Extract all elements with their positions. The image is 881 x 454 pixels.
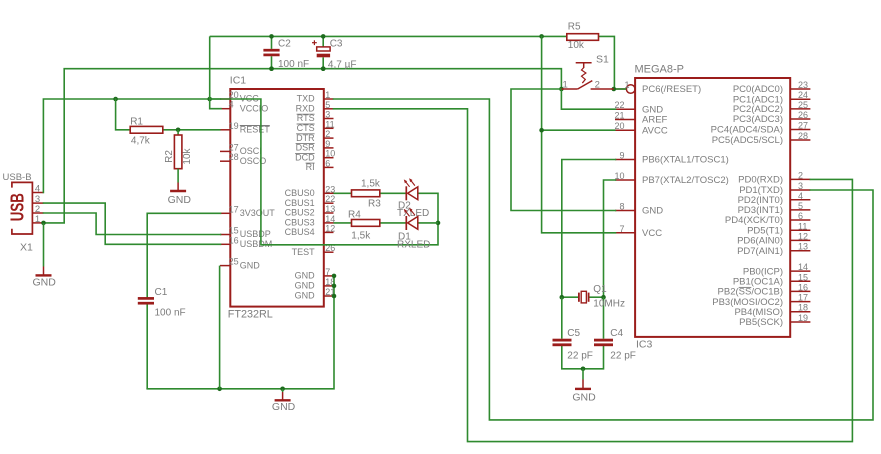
X1 pin 2 bbox=[32, 204, 43, 215]
svg-text:PB5(SCK): PB5(SCK) bbox=[739, 317, 783, 328]
svg-text:22 pF: 22 pF bbox=[567, 351, 593, 362]
IC3 pin 23 PC0(ADC0) (right) bbox=[733, 80, 811, 95]
IC1 pin 2 DTR (right) bbox=[296, 129, 333, 143]
IC3 pin 26 PC3(ADC3) (right) bbox=[733, 110, 811, 125]
svg-text:1: 1 bbox=[563, 79, 568, 90]
wire PB7/XTAL2 to crystal bbox=[604, 180, 616, 297]
svg-text:17: 17 bbox=[798, 293, 808, 303]
IC3 pin 16 PB2(SS/OC1B) (right) bbox=[718, 282, 811, 297]
junction on VCC at R1 branch bbox=[113, 97, 118, 102]
svg-text:20: 20 bbox=[614, 121, 624, 131]
IC1 pin 18 GND (right) bbox=[295, 277, 336, 291]
junction S1 pin 1 node bbox=[559, 87, 564, 92]
IC1 pin 4 VCCIO (left) bbox=[220, 100, 268, 114]
svg-text:22: 22 bbox=[325, 194, 335, 204]
wire D2 anode to LED node bbox=[418, 192, 438, 194]
svg-text:RI: RI bbox=[306, 162, 315, 172]
svg-text:5: 5 bbox=[798, 201, 803, 211]
wire GND net from USB pin1 across top to S1 bbox=[44, 69, 562, 223]
wire RESET net: R1 to IC1 pin 19 bbox=[116, 99, 221, 130]
wire R2 top lead bbox=[177, 130, 179, 135]
junction crystal GND bbox=[581, 367, 586, 372]
wire crystal right lead bbox=[589, 296, 604, 298]
IC3 pin 13 PD7(AIN1) (right) bbox=[737, 242, 810, 257]
IC3 pin 10 PB7(XTAL2/TOSC2) (left) bbox=[614, 171, 728, 186]
svg-text:13: 13 bbox=[325, 204, 335, 214]
IC1 pin 27 OSCI (left) bbox=[220, 142, 262, 156]
svg-text:28: 28 bbox=[229, 152, 239, 162]
svg-text:AVCC: AVCC bbox=[642, 125, 668, 136]
svg-text:12: 12 bbox=[325, 223, 335, 233]
svg-text:X1: X1 bbox=[20, 242, 33, 254]
svg-text:R5: R5 bbox=[568, 22, 581, 33]
svg-text:IC3: IC3 bbox=[636, 339, 653, 351]
label USB-B bbox=[3, 172, 32, 183]
svg-text:GND: GND bbox=[295, 271, 316, 281]
IC3 pin 22 GND (left) bbox=[614, 100, 663, 115]
wire C1 bottom to GND bus bbox=[146, 305, 148, 389]
svg-text:PC3(ADC3): PC3(ADC3) bbox=[733, 114, 783, 125]
svg-text:GND: GND bbox=[295, 281, 316, 291]
IC1 pin 26 TEST (right) bbox=[292, 243, 336, 257]
svg-text:RXLED: RXLED bbox=[397, 240, 430, 251]
svg-text:CTS: CTS bbox=[297, 123, 315, 133]
svg-text:VCC: VCC bbox=[642, 228, 662, 239]
X1 USB rotated label bbox=[7, 193, 28, 221]
svg-text:12: 12 bbox=[798, 231, 808, 241]
svg-text:USB: USB bbox=[7, 193, 28, 221]
wire VCC net: USB pin4 up and across to IC1 VCC pin 20 bbox=[43, 99, 220, 193]
svg-text:7: 7 bbox=[619, 224, 624, 234]
svg-text:TEST: TEST bbox=[292, 247, 316, 257]
switch S1 (reset pushbutton) bbox=[561, 54, 613, 91]
svg-text:DSR: DSR bbox=[296, 143, 316, 153]
IC IC1 FT232RL box bbox=[230, 89, 323, 307]
wire top VCC rail to R5 bbox=[210, 35, 567, 37]
wire R4 to D1 bbox=[380, 222, 407, 224]
svg-text:PC4(ADC4/SDA): PC4(ADC4/SDA) bbox=[711, 125, 783, 136]
svg-text:TXD: TXD bbox=[297, 94, 316, 104]
IC3 pin 8 GND (left) bbox=[615, 202, 663, 217]
wire crystal left lead bbox=[562, 296, 579, 298]
svg-text:VCCIO: VCCIO bbox=[240, 103, 269, 113]
svg-text:24: 24 bbox=[798, 90, 808, 100]
label X1 bbox=[20, 242, 33, 254]
capacitor C3 (polarized) bbox=[312, 34, 356, 71]
svg-text:16: 16 bbox=[229, 235, 239, 245]
ground symbol at bottom GND bus bbox=[272, 389, 296, 413]
svg-text:13: 13 bbox=[798, 242, 808, 252]
junction GND bus at IC1 pin 25 drop bbox=[217, 387, 222, 392]
svg-text:100 nF: 100 nF bbox=[278, 59, 309, 70]
svg-text:6: 6 bbox=[798, 211, 803, 221]
svg-text:CBUS0: CBUS0 bbox=[285, 188, 315, 198]
svg-text:23: 23 bbox=[798, 80, 808, 90]
svg-text:3: 3 bbox=[798, 181, 803, 191]
svg-text:27: 27 bbox=[798, 121, 808, 131]
svg-text:Q1: Q1 bbox=[593, 284, 607, 295]
wire VCC rising to top rail bbox=[209, 36, 211, 99]
IC3 pin 4 PD2(INT0) (right) bbox=[738, 191, 811, 206]
svg-text:PC5(ADC5/SCL): PC5(ADC5/SCL) bbox=[712, 135, 783, 146]
svg-text:6: 6 bbox=[325, 158, 330, 168]
R2 ground symbol bbox=[168, 169, 192, 206]
IC1 pin 11 CTS (right) bbox=[297, 119, 335, 133]
wire 3V3OUT to C1 bbox=[147, 213, 220, 297]
IC3 pin 15 PB1(OC1A) (right) bbox=[733, 272, 811, 287]
wire IC1 pin 25 GND drop bbox=[219, 266, 221, 389]
svg-text:C2: C2 bbox=[278, 38, 291, 49]
wire R5 right to switch node bbox=[599, 36, 615, 89]
svg-text:CBUS2: CBUS2 bbox=[285, 208, 315, 218]
junction LED anode node bbox=[436, 221, 441, 226]
IC1 pin 9 DSR (right) bbox=[296, 139, 334, 153]
junction AVCC bbox=[539, 128, 544, 133]
resistor R3 bbox=[352, 178, 382, 209]
svg-text:GND: GND bbox=[295, 291, 316, 301]
svg-text:OSCO: OSCO bbox=[240, 156, 267, 166]
junction XTAL2 / C4 bbox=[601, 295, 606, 300]
svg-text:100 nF: 100 nF bbox=[155, 308, 186, 319]
label IC1 bbox=[230, 74, 247, 86]
resistor R5 bbox=[567, 22, 599, 52]
wire GND bus along bottom to IC1 GND pins bbox=[147, 276, 334, 389]
wire D1 anode to LED node bbox=[418, 222, 438, 224]
value label FT232RL bbox=[228, 309, 273, 321]
svg-text:8: 8 bbox=[619, 202, 624, 212]
wire AVCC branch down to pin 20 AVCC and pin 7 VCC bbox=[542, 36, 616, 232]
svg-text:19: 19 bbox=[229, 121, 239, 131]
capacitor C5 bbox=[553, 328, 593, 362]
IC3 pin 11 PD5(T1) (right) bbox=[747, 221, 810, 236]
IC1 pin 7 GND (right) bbox=[295, 267, 334, 281]
label IC3 bbox=[636, 339, 653, 351]
IC3 pin 28 PC5(ADC5/SCL) (right) bbox=[712, 131, 811, 146]
svg-text:GND: GND bbox=[33, 276, 57, 288]
label MEGA8-P bbox=[635, 63, 685, 75]
svg-text:PB6(XTAL1/TOSC1): PB6(XTAL1/TOSC1) bbox=[642, 155, 729, 166]
capacitor C4 bbox=[594, 328, 636, 362]
IC3 pin 25 PC2(ADC2) (right) bbox=[733, 100, 811, 115]
IC1 pin 5 RXD (right) bbox=[296, 100, 334, 114]
svg-text:11: 11 bbox=[325, 119, 334, 129]
wire VCC to VCCIO pin 4 bbox=[210, 99, 221, 109]
svg-text:10MHz: 10MHz bbox=[593, 298, 625, 309]
IC3 pin 20 AVCC (left) bbox=[614, 121, 667, 136]
IC1 pin 12 CBUS4 (right) bbox=[285, 223, 336, 237]
IC1 pin 14 CBUS3 (right) bbox=[285, 214, 336, 228]
IC1 pin 19 RESET (left) bbox=[220, 121, 270, 135]
IC1 pin 17 3V3OUT (left) bbox=[220, 204, 275, 218]
IC3 pin 3 PD1(TXD) (right) bbox=[739, 181, 810, 196]
wire CBUS3 to R4 bbox=[334, 222, 352, 224]
IC3 pin 5 PD3(INT1) (right) bbox=[738, 201, 811, 216]
junction S1 pin 2 node bbox=[612, 87, 617, 92]
wire PB6/XTAL1 to crystal bbox=[562, 160, 616, 298]
IC1 pin 6 RI (right) bbox=[306, 158, 334, 172]
svg-text:PD7(AIN1): PD7(AIN1) bbox=[737, 246, 783, 257]
svg-text:USBDP: USBDP bbox=[240, 229, 271, 239]
svg-text:DTR: DTR bbox=[296, 133, 315, 143]
IC1 pin 13 CBUS2 (right) bbox=[285, 204, 336, 218]
junction top rail at AVCC branch bbox=[539, 34, 544, 39]
svg-text:27: 27 bbox=[229, 142, 239, 152]
svg-text:CBUS4: CBUS4 bbox=[285, 227, 315, 237]
svg-text:26: 26 bbox=[798, 110, 808, 120]
svg-text:22 pF: 22 pF bbox=[610, 351, 636, 362]
IC3 pin 27 PC4(ADC4/SDA) (right) bbox=[711, 121, 811, 136]
crystal Q1 10MHz bbox=[579, 284, 625, 309]
svg-text:MEGA8-P: MEGA8-P bbox=[635, 63, 685, 75]
IC3 pin 19 PB5(SCK) (right) bbox=[739, 313, 810, 328]
svg-text:10k: 10k bbox=[182, 147, 193, 164]
resistor R1 bbox=[130, 116, 163, 146]
svg-text:4: 4 bbox=[229, 100, 234, 110]
wire GND branch to IC3 pin 22 bbox=[561, 89, 615, 109]
resistor R2 (vertical) with 10k value bbox=[164, 135, 193, 169]
junction XTAL1 / C5 bbox=[560, 295, 565, 300]
svg-text:RTS: RTS bbox=[297, 113, 315, 123]
svg-text:10: 10 bbox=[325, 149, 335, 159]
wire USB pin3 to USBDM pin 16 bbox=[44, 203, 221, 244]
svg-text:5: 5 bbox=[325, 100, 330, 110]
wire R3 to D2 bbox=[380, 192, 407, 194]
svg-text:4: 4 bbox=[35, 184, 40, 195]
IC1 pin 20 VCC (left) bbox=[220, 90, 259, 104]
junction GND rail at C2 bbox=[269, 66, 274, 71]
X1 pin 3 bbox=[32, 194, 43, 205]
junction USB pin1 bbox=[41, 221, 46, 226]
svg-text:9: 9 bbox=[325, 139, 330, 149]
IC3 pin 7 VCC (left) bbox=[615, 224, 662, 239]
svg-text:14: 14 bbox=[798, 262, 808, 272]
wire VCC routed over IC1 to LED anodes bbox=[210, 99, 438, 245]
X1 pin 1 bbox=[32, 214, 43, 225]
svg-text:16: 16 bbox=[798, 282, 808, 292]
svg-text:1: 1 bbox=[35, 214, 40, 225]
svg-text:10k: 10k bbox=[568, 40, 585, 51]
IC3 pin 12 PD6(AIN0) (right) bbox=[737, 231, 810, 246]
IC1 pin 22 CBUS1 (right) bbox=[285, 194, 336, 208]
junction RESET at R2 bbox=[176, 128, 181, 133]
svg-text:DCD: DCD bbox=[295, 152, 315, 162]
LED D2 TXLED bbox=[397, 178, 429, 219]
svg-text:3: 3 bbox=[325, 110, 330, 120]
X1 pin 4 bbox=[32, 184, 43, 195]
svg-text:OSCI: OSCI bbox=[240, 146, 262, 156]
svg-text:CBUS1: CBUS1 bbox=[285, 198, 315, 208]
svg-text:USB-B: USB-B bbox=[3, 172, 32, 183]
IC3 pin 18 PB4(MISO) (right) bbox=[734, 303, 810, 318]
IC1 pin 21 GND (right) bbox=[295, 287, 336, 301]
IC3 pin 24 PC1(ADC1) (right) bbox=[733, 90, 811, 105]
svg-text:IC1: IC1 bbox=[230, 74, 247, 86]
junction GND bus at ground symbol bbox=[280, 387, 285, 392]
svg-text:GND: GND bbox=[572, 391, 596, 403]
IC1 pin 1 TXD (right) bbox=[297, 90, 334, 104]
IC3 pin 6 PD4(XCK/T0) (right) bbox=[725, 211, 810, 226]
wire CBUS0 to R3 bbox=[334, 192, 352, 194]
svg-text:19: 19 bbox=[798, 313, 808, 323]
svg-text:21: 21 bbox=[614, 111, 624, 121]
wire C5 bottom to crystal GND bbox=[562, 346, 604, 369]
ground symbol at crystal capacitors bbox=[572, 369, 596, 404]
connector X1 USB-B bbox=[12, 182, 33, 234]
svg-text:PD0(RXD): PD0(RXD) bbox=[738, 175, 783, 186]
wire GND branch to IC3 pin 8 bbox=[511, 89, 616, 211]
IC3 pin 17 PB3(MOSI/OC2) (right) bbox=[712, 293, 810, 308]
junction on VCC at IC1 bbox=[207, 97, 212, 102]
svg-text:4: 4 bbox=[798, 191, 803, 201]
svg-text:GND: GND bbox=[272, 401, 296, 413]
svg-text:PC6(/RESET): PC6(/RESET) bbox=[642, 84, 701, 95]
IC1 pin 23 CBUS0 (right) bbox=[285, 184, 336, 198]
IC1 pin 15 USBDP (left) bbox=[220, 226, 271, 240]
svg-text:RXD: RXD bbox=[296, 104, 316, 114]
svg-text:CBUS3: CBUS3 bbox=[285, 218, 315, 228]
IC1 pin 3 RTS (right) bbox=[297, 110, 334, 124]
svg-text:R2: R2 bbox=[164, 150, 175, 163]
svg-text:1: 1 bbox=[325, 90, 330, 100]
svg-text:R1: R1 bbox=[130, 116, 143, 127]
svg-text:R3: R3 bbox=[368, 199, 381, 210]
capacitor C1 bbox=[138, 287, 186, 319]
svg-text:AREF: AREF bbox=[642, 115, 668, 126]
svg-text:RESET: RESET bbox=[240, 125, 271, 135]
svg-text:3V3OUT: 3V3OUT bbox=[240, 208, 276, 218]
IC1 pin 25 GND (left) bbox=[220, 257, 260, 271]
svg-text:15: 15 bbox=[798, 272, 808, 282]
svg-text:28: 28 bbox=[798, 131, 808, 141]
wire S1 to IC3 pin 1 bbox=[614, 88, 627, 90]
svg-text:7: 7 bbox=[325, 267, 330, 277]
svg-text:25: 25 bbox=[798, 100, 808, 110]
svg-text:C1: C1 bbox=[155, 287, 168, 298]
svg-text:R4: R4 bbox=[348, 209, 361, 220]
svg-text:4,7 µF: 4,7 µF bbox=[328, 60, 357, 71]
wire C4 top lead bbox=[603, 297, 605, 339]
svg-text:9: 9 bbox=[619, 151, 624, 161]
svg-text:2: 2 bbox=[325, 129, 330, 139]
junction GND rail at C3 bbox=[321, 66, 326, 71]
IC3 pin 14 PB0(ICP) (right) bbox=[743, 262, 811, 277]
svg-text:1,5k: 1,5k bbox=[351, 231, 371, 242]
wire C5 top lead bbox=[561, 297, 563, 339]
junctions IC1 GND pins 7,18,21 bbox=[332, 274, 337, 299]
wire USB pin2 to USBDP pin 15 bbox=[44, 213, 221, 235]
svg-text:17: 17 bbox=[229, 204, 239, 214]
capacitor C2 bbox=[263, 34, 309, 71]
svg-text:GND: GND bbox=[168, 194, 192, 206]
IC1 pin 10 DCD (right) bbox=[295, 149, 335, 163]
svg-text:C5: C5 bbox=[567, 328, 580, 339]
svg-text:2: 2 bbox=[595, 79, 600, 90]
svg-text:S1: S1 bbox=[596, 54, 609, 66]
svg-text:C4: C4 bbox=[610, 328, 623, 339]
wire RXD net: IC1 pin5 to IC3 pin 2 bbox=[334, 109, 853, 442]
svg-text:18: 18 bbox=[798, 303, 808, 313]
IC3 pin 21 AREF (left) bbox=[614, 111, 667, 126]
svg-text:PB7(XTAL2/TOSC2): PB7(XTAL2/TOSC2) bbox=[642, 175, 729, 186]
svg-text:4,7k: 4,7k bbox=[131, 135, 151, 146]
svg-text:15: 15 bbox=[229, 226, 239, 236]
svg-text:GND: GND bbox=[642, 206, 663, 217]
svg-text:1,5k: 1,5k bbox=[361, 178, 381, 189]
IC3 pin 1 PC6(/RESET) with inversion bubble bbox=[615, 80, 701, 95]
svg-text:2: 2 bbox=[798, 170, 803, 180]
IC3 pin 9 PB6(XTAL1/TOSC1) (left) bbox=[615, 151, 729, 166]
resistor R4 bbox=[348, 209, 380, 241]
wire TXD net: IC1 pin1 to IC3 pin 3 bbox=[334, 99, 874, 420]
svg-text:25: 25 bbox=[229, 257, 239, 267]
IC3 pin 2 PD0(RXD) (right) bbox=[738, 170, 810, 185]
svg-text:FT232RL: FT232RL bbox=[228, 309, 273, 321]
IC IC3 MEGA8-P box bbox=[635, 78, 790, 337]
ground symbol at USB pin 1 bbox=[33, 223, 57, 289]
LED D1 RXLED bbox=[397, 208, 430, 251]
svg-text:11: 11 bbox=[798, 221, 807, 231]
svg-text:GND: GND bbox=[240, 260, 260, 270]
IC1 pin 16 USBDM (left) bbox=[220, 235, 272, 249]
IC1 pin 28 OSCO (left) bbox=[220, 152, 266, 166]
svg-text:C3: C3 bbox=[330, 38, 343, 49]
